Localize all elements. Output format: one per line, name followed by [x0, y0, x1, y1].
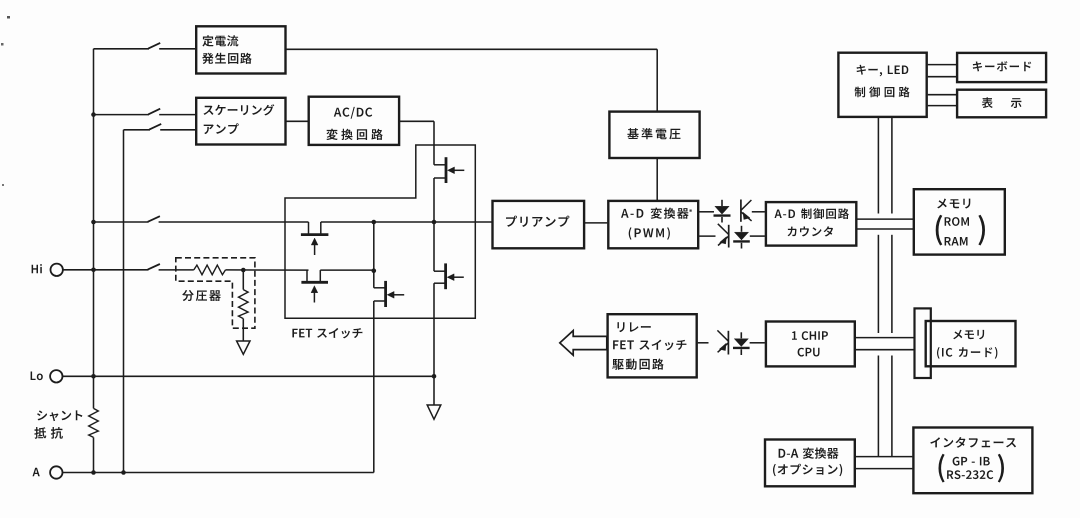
- switch S5 blade: [148, 264, 160, 270]
- label CPU line2: [798, 348, 820, 357]
- label shunt resistor line2: [34, 427, 63, 439]
- transistor Q3 channel: [301, 281, 328, 284]
- label interface paren right: [998, 454, 1004, 483]
- terminal A: [50, 466, 62, 478]
- wire row-E from Hi terminal: [63, 269, 149, 271]
- divider dashed enclosure: [176, 258, 255, 328]
- transistor Q4 gate arrow: [387, 291, 394, 298]
- transistor Q2 gate arrow: [311, 238, 318, 245]
- bus line left seg2: [877, 235, 879, 333]
- wire row-E to divider: [159, 269, 194, 271]
- transistor Q1 gate arrow: [448, 167, 455, 174]
- junction dot Lo-right: [432, 374, 437, 379]
- transistor Q2 channel: [301, 233, 329, 236]
- diode opto3 LED cathode lead: [740, 332, 742, 338]
- transistor opto2 photo base: [728, 225, 730, 248]
- label A-D control line2: [788, 226, 834, 236]
- transistor Q5 source lead: [434, 282, 446, 284]
- wire D-A to interface lower: [856, 468, 913, 470]
- box reference voltage: [609, 112, 699, 158]
- box AC/DC converter: [309, 97, 399, 145]
- label key LED line2: [855, 87, 910, 98]
- diode opto3 LED anode lead: [740, 349, 742, 355]
- label memory IC-card title: [953, 330, 984, 340]
- box A-D converter: [608, 201, 698, 248]
- label key LED line1: [857, 65, 909, 77]
- transistor opto3 photo base: [727, 331, 729, 355]
- wire row-G from A terminal: [63, 472, 374, 474]
- wire corner down to ref-voltage: [656, 49, 658, 111]
- junction dot A-mid: [121, 470, 126, 475]
- wire mid bus upper: [373, 222, 375, 288]
- box A-D control counter: [766, 202, 856, 246]
- wire opto1 right: [752, 211, 765, 213]
- terminal Hi: [51, 264, 63, 276]
- transistor Q2 drain lead: [308, 222, 310, 235]
- box constant-current circuit: [196, 26, 285, 73]
- wire AC/DC output horizontal: [400, 120, 435, 122]
- wire CPU to IC-card lower: [856, 349, 914, 351]
- label reference voltage: [627, 128, 680, 139]
- junction dot Lo-left: [91, 374, 96, 379]
- box keyboard: [957, 53, 1046, 82]
- box 1-chip CPU: [766, 322, 855, 367]
- transistor opto2 emitter arrow: [720, 237, 727, 244]
- diode opto1 LED cathode lead: [721, 200, 723, 206]
- box scaling amplifier: [196, 98, 285, 145]
- bus line right seg3: [891, 356, 893, 457]
- transistor Q5 drain lead: [434, 270, 446, 272]
- box interface: [913, 428, 1032, 494]
- wire keyLED to keyboard lower: [928, 76, 956, 78]
- label interface title: [930, 437, 1016, 448]
- diode opto1 LED triangle: [715, 206, 729, 214]
- transistor Q2 source lead: [320, 222, 322, 235]
- label relay line3: [612, 359, 663, 370]
- speck: [7, 16, 10, 19]
- resistor divider shunt (vertical zigzag): [239, 290, 249, 319]
- arrow relay drive output: [560, 331, 607, 356]
- transistor Q1 gate wire: [449, 169, 464, 171]
- label scaling-amp line2: [204, 123, 239, 134]
- label A-D converter line1: [621, 208, 689, 219]
- terminal Hi label: [32, 264, 42, 273]
- transistor Q5 channel: [444, 263, 447, 289]
- wire AC/DC output down: [433, 121, 435, 165]
- wire row-F from Lo terminal: [63, 375, 435, 377]
- wire row-C horizontal: [124, 129, 151, 131]
- transistor Q5 gate wire: [449, 276, 464, 278]
- wire A-D control to ROM upper: [857, 218, 914, 220]
- label voltage divider: [182, 290, 221, 301]
- wire left vertical bus upper: [93, 49, 95, 409]
- switch S1 blade: [148, 43, 160, 49]
- label memory paren right: [978, 215, 985, 246]
- wire row-C to box: [160, 129, 196, 131]
- wire D-A to interface upper: [856, 456, 913, 458]
- label A-D control line1: [775, 208, 849, 219]
- box memory ROM RAM: [914, 189, 1005, 254]
- box preamplifier: [493, 201, 585, 248]
- junction dot row-D node2: [432, 220, 437, 225]
- label constant-current line2: [202, 53, 252, 64]
- transistor opto2 emitter: [718, 236, 729, 245]
- wire row-A output: [286, 48, 657, 50]
- label AC/DC line2: [326, 129, 382, 140]
- transistor opto3 collector: [717, 330, 728, 341]
- wire right bus upper: [433, 222, 435, 271]
- transistor Q1 source lead: [434, 177, 446, 179]
- bus line right seg2: [891, 235, 893, 333]
- transistor Q2 gate wire: [314, 241, 316, 255]
- diode opto1 LED bar: [714, 214, 731, 216]
- box memory IC-card: [926, 321, 1016, 366]
- box key LED control: [838, 53, 926, 117]
- wire second vertical bus: [123, 130, 125, 473]
- diode opto2 LED cathode lead: [741, 226, 743, 232]
- label D-A line2: [773, 464, 842, 477]
- label relay line2: [613, 340, 686, 351]
- transistor Q4 drain lead: [374, 287, 386, 289]
- transistor opto1 emitter: [741, 212, 752, 221]
- transistor Q4 source lead: [374, 300, 386, 302]
- label AC/DC line1: [334, 107, 372, 119]
- label A-D converter line2: [629, 227, 670, 239]
- junction dot Hi-left: [91, 268, 96, 273]
- label memory ROM RAM title: [937, 199, 970, 209]
- wire opto3 to CPU: [750, 342, 765, 344]
- wire row-A to box: [159, 48, 196, 50]
- transistor opto1 photo base: [740, 200, 742, 222]
- wire keyLED to keyboard upper: [928, 64, 956, 66]
- transistor Q4 channel: [384, 281, 387, 307]
- wire row-D segment to Q2: [159, 221, 309, 223]
- bus line right seg1: [891, 118, 893, 214]
- wire mid bus lower: [373, 301, 375, 473]
- wire CPU to IC-card upper: [856, 337, 914, 339]
- wire row-B to box: [159, 114, 196, 116]
- wire divider branch lower: [242, 319, 244, 341]
- bus line left seg1: [877, 118, 879, 214]
- label interface RS-232C: [947, 470, 993, 479]
- label CPU line1: [792, 331, 828, 340]
- diode opto2 LED bar: [733, 240, 750, 242]
- label memory ROM: [945, 217, 969, 226]
- resistor divider series (horizontal zigzag): [194, 265, 226, 275]
- transistor Q3 drain lead: [306, 270, 308, 282]
- switch S4 blade: [148, 216, 160, 222]
- label D-A line1: [779, 448, 839, 459]
- FET switch block outline: [285, 145, 475, 318]
- transistor Q3 gate arrow: [311, 286, 318, 293]
- wire row-E after resistor: [226, 269, 309, 271]
- label display: [982, 97, 993, 108]
- label keyboard: [973, 61, 1031, 71]
- label FET switch: [292, 328, 362, 339]
- junction dot divider tap: [241, 268, 246, 273]
- label display 2: [1011, 98, 1022, 108]
- transistor Q3 source lead: [319, 270, 321, 282]
- label preamplifier: [506, 216, 569, 227]
- terminal Lo: [50, 370, 62, 382]
- ground divider (open triangle): [237, 341, 250, 354]
- label scaling-amp line1: [204, 104, 275, 115]
- wire keyLED to display upper: [928, 94, 956, 96]
- wire row-D left segment: [94, 221, 149, 223]
- switch S2 blade: [148, 109, 160, 115]
- label memory paren left: [936, 215, 943, 246]
- transistor opto2 collector: [718, 224, 729, 235]
- wire preamp to A-D converter: [585, 222, 607, 224]
- wire scaling-amp to AC/DC: [286, 120, 308, 122]
- wire row-E to mid bus: [320, 269, 374, 271]
- diode opto2 LED triangle: [734, 232, 748, 240]
- diode opto2 LED anode lead: [741, 243, 743, 249]
- label relay line1: [617, 322, 650, 332]
- transistor opto1 collector: [741, 200, 752, 210]
- IC-card connector tab: [915, 308, 931, 378]
- wire relay to opto3: [698, 342, 709, 344]
- wire left vertical bus lower: [93, 437, 95, 472]
- resistor shunt (vertical zigzag): [89, 408, 99, 437]
- transistor Q1 channel: [445, 157, 448, 183]
- junction dot row-B: [91, 112, 96, 117]
- wire opto2 right: [750, 235, 765, 237]
- label memory IC-card line2: [937, 347, 997, 359]
- junction dot A-left: [91, 470, 96, 475]
- wire keyLED to display lower: [928, 105, 956, 107]
- wire row-D to preamp: [321, 221, 492, 223]
- box display: [957, 90, 1046, 118]
- wire opto1 left: [699, 211, 714, 213]
- transistor opto1 emitter arrow: [743, 212, 750, 219]
- diode opto3 LED triangle: [734, 339, 748, 347]
- box relay FET-switch drive: [608, 314, 697, 377]
- bus line left seg3: [877, 356, 879, 457]
- diode opto1 LED anode lead: [721, 217, 723, 223]
- junction dot row-E node: [372, 268, 377, 273]
- junction dot row-D left: [91, 220, 96, 225]
- transistor Q4 gate wire: [389, 294, 405, 296]
- switch S3 blade: [149, 124, 161, 130]
- diode opto3 LED bar: [733, 347, 750, 349]
- transistor Q5 gate arrow: [447, 274, 454, 281]
- transistor opto3 emitter arrow: [719, 343, 726, 350]
- junction dot row-D node1: [372, 220, 377, 225]
- label memory RAM: [945, 237, 968, 246]
- wire ref-voltage to A-D converter: [656, 159, 658, 200]
- label constant-current line1: [202, 35, 238, 46]
- label interface paren left: [939, 454, 945, 483]
- wire A-D control to ROM lower: [857, 228, 914, 230]
- wire opto2 left: [699, 235, 715, 237]
- terminal A label: [33, 468, 40, 477]
- wire divider branch upper: [242, 270, 244, 290]
- wire row-A left segment: [94, 48, 150, 50]
- box D-A converter: [765, 440, 855, 487]
- label interface GP-IB: [953, 457, 990, 466]
- wire Q1 source down to row-D: [433, 178, 435, 222]
- ground main (open triangle): [427, 405, 441, 419]
- terminal Lo label: [31, 372, 43, 381]
- wire right bus lower: [433, 283, 435, 376]
- label shunt resistor line1: [37, 410, 82, 421]
- transistor Q1 drain lead: [434, 164, 446, 166]
- wire row-B left segment: [94, 114, 150, 116]
- transistor opto3 emitter: [718, 343, 729, 353]
- wire ground stub: [433, 376, 435, 405]
- transistor Q3 gate wire: [313, 289, 315, 303]
